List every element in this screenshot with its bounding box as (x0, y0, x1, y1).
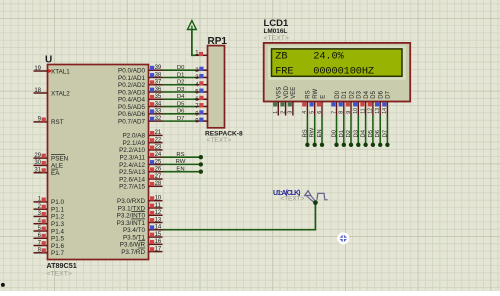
svg-text:D4: D4 (361, 129, 367, 137)
wire EN from LCD1 pin 6 (317, 116, 324, 148)
LCD text line 1 (275, 50, 344, 62)
pin 31 (EA) of U (34, 168, 61, 178)
svg-text:8: 8 (339, 111, 345, 114)
wire D6 from U P0.6 to RP1 pin 8 (163, 109, 196, 115)
label TEXT placeholder of probe (281, 195, 305, 202)
svg-text:P2.1/A9: P2.1/A9 (123, 140, 146, 147)
svg-text:VDD: VDD (284, 85, 290, 98)
svg-text:D4: D4 (364, 90, 370, 98)
pin 2 (VDD) of LCD1 (280, 85, 290, 115)
svg-text:D6: D6 (177, 109, 185, 115)
svg-text:4: 4 (302, 111, 308, 114)
pin 1 (VSS) of LCD1 (273, 87, 283, 116)
pin 2 of RP1 (195, 67, 208, 74)
LCD screen frame (268, 46, 406, 80)
svg-text:P1.0: P1.0 (51, 199, 64, 206)
svg-text:12: 12 (155, 210, 162, 216)
svg-text:D6: D6 (375, 129, 381, 137)
pin 7 of RP1 (195, 103, 208, 110)
pin 2 (P1.1) of U (34, 204, 65, 214)
pin 32 (P0.7/AD7) of U (118, 116, 162, 126)
svg-text:P1.2: P1.2 (51, 214, 64, 221)
pin 14 (D7) of LCD1 (382, 90, 392, 115)
pin 4 of RP1 (195, 81, 208, 88)
wire D6 from LCD1 pin 13 (375, 116, 382, 148)
pin 38 (P0.1/AD1) of U (118, 72, 162, 82)
svg-text:13: 13 (155, 217, 162, 223)
label U (45, 55, 52, 66)
svg-text:D7: D7 (382, 130, 388, 138)
svg-text:7: 7 (331, 111, 337, 114)
svg-text:14: 14 (382, 108, 388, 114)
pin 21 (P2.0/A8) of U (123, 130, 163, 140)
pin 5 (P1.4) of U (34, 226, 65, 236)
wire D5 from U P0.5 to RP1 pin 7 (163, 101, 196, 107)
svg-text:VSS: VSS (277, 87, 283, 99)
pin 16 (P3.6/WR) of U (120, 239, 163, 249)
LCD LCD1 body (264, 43, 411, 102)
svg-text:RW: RW (313, 88, 319, 98)
svg-text:XTAL2: XTAL2 (51, 90, 70, 97)
svg-text:21: 21 (155, 130, 162, 136)
svg-text:P0.0/AD0: P0.0/AD0 (118, 68, 145, 75)
svg-text:13: 13 (375, 108, 381, 114)
svg-text:D2: D2 (177, 80, 185, 86)
wire D0 from U P0.0 to RP1 pin 2 (163, 65, 196, 71)
pin 9 of RP1 (195, 118, 208, 125)
svg-text:P3.3/INT1: P3.3/INT1 (117, 220, 146, 227)
svg-text:P2.5/A13: P2.5/A13 (119, 169, 145, 176)
svg-text:12: 12 (368, 108, 374, 114)
svg-text:15: 15 (155, 232, 162, 238)
svg-text:18: 18 (34, 88, 41, 94)
svg-text:LM016L: LM016L (264, 28, 288, 35)
svg-text:10: 10 (155, 196, 162, 202)
svg-text:24.0%: 24.0% (313, 50, 344, 62)
svg-text:P0.7/AD7: P0.7/AD7 (118, 118, 145, 125)
pin 29 (PSEN) of U (34, 153, 69, 163)
svg-text:<TEXT>: <TEXT> (264, 35, 289, 42)
pin 26 (P2.5/A13) of U (119, 167, 162, 177)
pin 22 (P2.1/A9) of U (123, 137, 163, 147)
pin 7 (D0) of LCD1 (331, 90, 341, 115)
svg-text:3: 3 (288, 111, 294, 114)
origin marker (337, 232, 349, 244)
svg-text:33: 33 (155, 109, 162, 115)
pin 10 (D3) of LCD1 (353, 90, 363, 115)
svg-text:XTAL1: XTAL1 (51, 68, 70, 75)
svg-text:P3.0/RXD: P3.0/RXD (117, 198, 145, 205)
svg-text:P2.4/A12: P2.4/A12 (119, 162, 145, 169)
wire RS from LCD1 pin 4 (302, 116, 309, 148)
pin 25 (P2.4/A12) of U (119, 159, 162, 169)
pin 1 of RP1 (193, 51, 208, 57)
pin 12 (D5) of LCD1 (368, 90, 378, 115)
svg-text:RP1: RP1 (208, 36, 228, 47)
svg-text:38: 38 (155, 72, 162, 78)
wire D7 from LCD1 pin 14 (382, 116, 389, 148)
svg-text:D1: D1 (339, 130, 345, 138)
svg-text:P1.7: P1.7 (51, 250, 64, 257)
pin 3 (VEE) of LCD1 (288, 87, 298, 116)
svg-text:P0.2/AD2: P0.2/AD2 (118, 82, 145, 89)
svg-text:1: 1 (273, 111, 279, 114)
svg-text:2: 2 (280, 111, 286, 114)
svg-text:10: 10 (353, 108, 359, 114)
svg-text:<TEXT>: <TEXT> (281, 195, 305, 202)
pin 36 (P0.3/AD3) of U (118, 87, 162, 97)
svg-text:9: 9 (346, 111, 352, 114)
wire from U pin 14 (P3.4/T0) to clock probe (163, 203, 316, 230)
pin 30 (ALE) of U (34, 160, 63, 170)
svg-text:RS: RS (306, 90, 312, 98)
LCD screen (272, 49, 403, 76)
svg-text:6: 6 (317, 111, 323, 114)
pin 1 (P1.0) of U (34, 197, 65, 207)
wire D3 from U P0.3 to RP1 pin 5 (163, 87, 196, 93)
svg-text:D7: D7 (177, 116, 185, 122)
wire D1 from LCD1 pin 8 (339, 116, 346, 148)
pin 18 (XTAL2) of U (34, 88, 71, 98)
svg-text:P3.6/WR: P3.6/WR (120, 242, 146, 249)
svg-text:23: 23 (155, 145, 162, 151)
svg-text:P0.1/AD1: P0.1/AD1 (118, 75, 145, 82)
svg-text:P0.5/AD5: P0.5/AD5 (118, 104, 145, 111)
pin 24 (P2.3/A11) of U (120, 152, 163, 162)
pin 19 (XTAL1) of U (34, 66, 71, 76)
pin 6 (P1.5) of U (34, 233, 65, 243)
pin 4 (RS) of LCD1 (302, 90, 312, 115)
wire D5 from LCD1 pin 12 (368, 116, 375, 148)
svg-text:14: 14 (155, 225, 162, 231)
svg-text:D5: D5 (177, 101, 185, 107)
pin 8 (D1) of LCD1 (339, 90, 349, 115)
svg-text:D3: D3 (357, 90, 363, 98)
svg-text:P0.4/AD4: P0.4/AD4 (118, 97, 145, 104)
svg-text:5: 5 (310, 111, 316, 114)
label TEXT placeholder of LCD1 (264, 35, 289, 42)
svg-text:19: 19 (34, 66, 41, 72)
svg-text:P3.2/INT0: P3.2/INT0 (117, 213, 146, 220)
svg-text:RS: RS (302, 129, 308, 137)
svg-text:PSEN: PSEN (51, 155, 69, 162)
svg-text:P0.3/AD3: P0.3/AD3 (118, 89, 145, 96)
svg-text:D3: D3 (177, 87, 185, 93)
wire D4 from U P0.4 to RP1 pin 6 (163, 94, 196, 100)
svg-text:FRE: FRE (275, 65, 293, 77)
svg-text:EN: EN (317, 129, 323, 137)
wire EN from U P2 (163, 166, 204, 174)
svg-text:D0: D0 (335, 90, 341, 98)
label TEXT placeholder of U (47, 271, 72, 278)
wire D7 from U P0.7 to RP1 pin 9 (163, 116, 196, 122)
svg-text:P2.0/A8: P2.0/A8 (123, 133, 146, 140)
svg-text:EA: EA (51, 170, 60, 177)
svg-text:P2.7/A15: P2.7/A15 (119, 184, 145, 191)
svg-text:D0: D0 (177, 65, 185, 71)
wire D3 from LCD1 pin 10 (353, 116, 360, 148)
wire RW from LCD1 pin 5 (310, 116, 317, 148)
svg-text:29: 29 (34, 153, 41, 159)
label RP1 (208, 36, 228, 47)
svg-text:ZB: ZB (275, 50, 287, 62)
clock probe U1:A(CLK) (305, 191, 328, 205)
node dot bottom-left (1, 283, 5, 287)
svg-text:P1.6: P1.6 (51, 243, 64, 250)
wire RS from U P2 (163, 152, 204, 160)
svg-text:RST: RST (51, 119, 64, 126)
svg-text:D4: D4 (177, 94, 185, 100)
svg-text:11: 11 (360, 108, 366, 114)
pin 28 (P2.7/A15) of U (119, 181, 162, 191)
svg-text:D2: D2 (346, 130, 352, 138)
svg-text:U: U (45, 55, 52, 66)
svg-text:P0.6/AD6: P0.6/AD6 (118, 111, 145, 118)
pin 14 (P3.4/T0) of U (123, 225, 163, 235)
microcontroller U (AT89C51) body (48, 65, 149, 260)
svg-text:26: 26 (155, 167, 162, 173)
svg-text:39: 39 (155, 65, 162, 71)
svg-text:P2.2/A10: P2.2/A10 (119, 147, 145, 154)
pin 39 (P0.0/AD0) of U (118, 65, 162, 75)
svg-text:24: 24 (155, 152, 162, 158)
pin 11 (D4) of LCD1 (360, 90, 370, 115)
pin 33 (P0.6/AD6) of U (118, 109, 162, 119)
svg-text:EN: EN (176, 166, 184, 172)
svg-text:D2: D2 (349, 90, 355, 98)
svg-text:P1.3: P1.3 (51, 221, 64, 228)
svg-text:P1.1: P1.1 (51, 206, 64, 213)
svg-text:00000100HZ: 00000100HZ (313, 65, 374, 77)
svg-text:<TEXT>: <TEXT> (47, 271, 72, 278)
svg-text:ALE: ALE (51, 163, 63, 170)
pin 6 (E) of LCD1 (317, 95, 327, 116)
pin 6 of RP1 (195, 96, 208, 103)
pin 15 (P3.5/T1) of U (123, 232, 163, 242)
svg-text:P3.1/TXD: P3.1/TXD (118, 205, 146, 212)
svg-text:35: 35 (155, 94, 162, 100)
wire D1 from U P0.1 to RP1 pin 3 (163, 72, 196, 78)
wire D2 from LCD1 pin 9 (346, 116, 353, 148)
svg-text:32: 32 (155, 116, 162, 122)
svg-text:P2.6/A14: P2.6/A14 (119, 176, 145, 183)
pin 13 (P3.3/INT1) of U (117, 217, 163, 227)
pin 3 (P1.2) of U (34, 211, 65, 221)
svg-text:D5: D5 (368, 129, 374, 137)
LCD text line 2 (275, 65, 374, 77)
svg-text:D6: D6 (379, 90, 385, 98)
pin 7 (P1.6) of U (34, 240, 65, 250)
svg-text:P1.4: P1.4 (51, 228, 64, 235)
value label RESPACK-8 (205, 130, 243, 137)
wire D2 from U P0.2 to RP1 pin 4 (163, 80, 196, 86)
pin 13 (D6) of LCD1 (375, 90, 385, 115)
svg-text:VEE: VEE (291, 87, 297, 99)
wire D4 from LCD1 pin 11 (361, 116, 368, 148)
pin 34 (P0.5/AD5) of U (118, 101, 162, 111)
svg-text:D5: D5 (371, 90, 377, 98)
svg-text:30: 30 (34, 160, 41, 166)
pin 5 (RW) of LCD1 (310, 88, 320, 115)
svg-text:RW: RW (176, 159, 186, 165)
wire D0 from LCD1 pin 7 (332, 116, 339, 148)
pin 3 of RP1 (195, 74, 208, 81)
svg-text:D0: D0 (332, 129, 338, 137)
svg-text:22: 22 (155, 137, 162, 143)
pin 10 (P3.0/RXD) of U (117, 196, 163, 206)
svg-text:D7: D7 (386, 90, 392, 98)
svg-text:34: 34 (155, 101, 162, 107)
svg-text:28: 28 (155, 181, 162, 187)
pin 9 (RST) of U (34, 117, 64, 127)
svg-text:<TEXT>: <TEXT> (207, 137, 232, 144)
svg-text:16: 16 (155, 239, 162, 245)
pin 8 (P1.7) of U (34, 248, 65, 258)
svg-text:D1: D1 (342, 90, 348, 98)
pin 17 (P3.7/RD) of U (121, 246, 162, 256)
pin 11 (P3.1/TXD) of U (118, 203, 163, 213)
label U1:A(CLK) (273, 190, 301, 197)
wire RW from U P2 (163, 159, 204, 167)
pin 27 (P2.6/A14) of U (119, 174, 162, 184)
svg-text:31: 31 (34, 168, 41, 174)
power symbol (VCC arrow) (188, 21, 197, 56)
value label AT89C51 (47, 261, 77, 270)
pin 37 (P0.2/AD2) of U (118, 80, 162, 90)
svg-text:36: 36 (155, 87, 162, 93)
svg-text:17: 17 (155, 246, 162, 252)
svg-text:D3: D3 (353, 129, 359, 137)
svg-text:RW: RW (310, 127, 316, 137)
svg-text:D1: D1 (177, 72, 185, 78)
pin 9 (D2) of LCD1 (346, 90, 356, 115)
svg-text:25: 25 (155, 159, 162, 165)
svg-text:P3.5/T1: P3.5/T1 (123, 234, 146, 241)
pin 5 of RP1 (195, 89, 208, 96)
svg-text:AT89C51: AT89C51 (47, 261, 77, 270)
pin 8 of RP1 (195, 110, 208, 117)
svg-text:P3.4/T0: P3.4/T0 (123, 227, 146, 234)
svg-text:RS: RS (176, 152, 184, 158)
svg-text:37: 37 (155, 80, 162, 86)
pin 4 (P1.3) of U (34, 219, 65, 229)
svg-text:E: E (320, 95, 326, 99)
label LCD1 (264, 18, 290, 29)
svg-text:27: 27 (155, 174, 162, 180)
pin 23 (P2.2/A10) of U (119, 145, 162, 155)
svg-text:P3.7/RD: P3.7/RD (121, 249, 145, 256)
svg-text:P2.3/A11: P2.3/A11 (120, 155, 146, 162)
svg-text:11: 11 (155, 203, 162, 209)
svg-text:P1.5: P1.5 (51, 236, 64, 243)
label TEXT placeholder of RP1 (207, 137, 232, 144)
value label LM016L (264, 28, 288, 35)
resistor pack RP1 body (208, 46, 225, 128)
pin 35 (P0.4/AD4) of U (118, 94, 162, 104)
pin 12 (P3.2/INT0) of U (117, 210, 163, 220)
